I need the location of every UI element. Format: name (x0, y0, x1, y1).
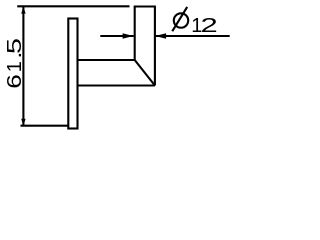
rod bottom edge (horizontal arm) (78, 84, 155, 86)
dimension line 61.5 (vertical) (22, 6, 24, 126)
bottom extension line (21, 125, 69, 127)
top extension line (17, 5, 129, 7)
rod top edge (horizontal arm) (78, 59, 135, 61)
svg-text:6: 6 (3, 74, 25, 88)
rod left edge (vertical bar) (134, 7, 136, 61)
dimension line Ø12 left segment (100, 35, 133, 37)
arrowhead up (61.5 top) (21, 6, 25, 13)
bend miter diagonal (135, 60, 155, 86)
svg-text:5: 5 (3, 38, 25, 54)
rod right edge (vertical bar) (154, 7, 156, 86)
arrowhead right-pointing (Ø12 left) (123, 33, 134, 38)
svg-text:1: 1 (4, 61, 26, 72)
diameter symbol slash (172, 7, 187, 31)
diameter symbol circle (174, 13, 188, 27)
arrowhead down (61.5 bottom) (21, 119, 25, 126)
dimension line Ø12 right segment (156, 35, 230, 37)
mounting plate outline (68, 19, 77, 129)
arrowhead left-pointing (Ø12 right) (155, 33, 166, 38)
rod top edge (vertical bar) (134, 5, 156, 7)
svg-text:2: 2 (201, 14, 218, 37)
